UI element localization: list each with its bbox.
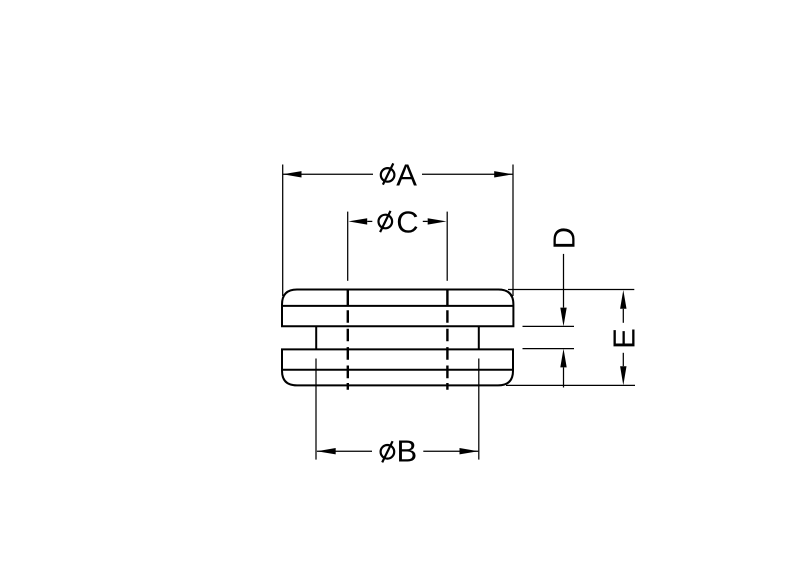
dim B extension line left [315,359,317,460]
dim D arrow down [560,308,566,327]
dim E line lower [622,353,624,366]
svg-text:B: B [397,434,418,469]
dim A extension line left [282,165,284,297]
hole hidden line left [347,289,349,389]
dim D leader upper [563,254,565,308]
dim D extension line lower [523,348,575,350]
dim E arrow down [620,366,626,385]
dim B diameter symbol [381,441,395,462]
dim B extension line right [478,359,480,460]
dim A arrow left [283,171,302,177]
svg-text:E: E [606,328,641,349]
dim B arrow left [317,448,336,454]
dim C arrow right [428,218,447,224]
dim A extension line right [512,165,514,297]
neck left edge [315,326,317,349]
dim B line left segment [317,450,372,452]
dim D arrow up [560,349,566,368]
dim B arrow right [460,448,479,454]
dim C tail right [423,220,428,222]
top flange lip line [282,305,513,307]
dim E arrow up [620,290,626,309]
bottom flange lip line [282,369,513,371]
dim A arrow right [494,171,513,177]
dim E extension line bottom [506,384,635,386]
svg-text:D: D [547,227,582,249]
dim D extension line upper [523,325,575,327]
dim C extension line left [347,212,349,281]
hole hidden line right [446,289,448,389]
grommet bottom flange outline [282,349,513,385]
dim E extension line top [508,289,634,291]
dim A line right segment [422,173,513,175]
dim C extension line right [446,212,448,281]
dim A diameter symbol [381,163,395,184]
dim B line right segment [423,450,478,452]
grommet top flange outline [282,290,513,327]
neck right edge [478,326,480,349]
svg-text:A: A [396,158,417,193]
svg-text:C: C [396,204,418,239]
dim D leader lower [563,367,565,387]
dim A line left segment [283,173,373,175]
dim E line upper [622,309,624,323]
dim C arrow left [348,218,367,224]
dim C diameter symbol [379,211,393,232]
dim C tail left [367,220,372,222]
